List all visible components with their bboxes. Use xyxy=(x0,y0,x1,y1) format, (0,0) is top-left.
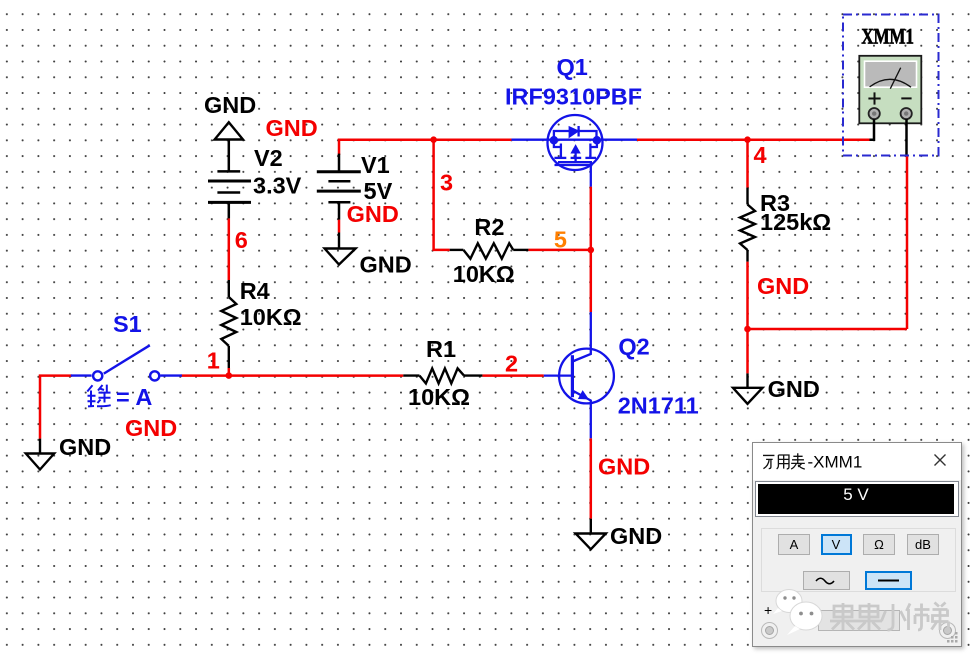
svg-text:GND: GND xyxy=(610,523,662,549)
svg-text:GND: GND xyxy=(757,273,809,299)
dialog 万用表-XMM1 multimeter window xyxy=(752,442,962,647)
button AC xyxy=(803,571,850,590)
char yong xyxy=(777,455,789,469)
wire segment R4 to node 1 xyxy=(228,368,231,376)
display black screen xyxy=(758,484,954,514)
wire net 4 down to R3 xyxy=(746,140,749,188)
button dB xyxy=(907,534,939,555)
display bezel xyxy=(755,481,959,517)
battery V1 xyxy=(317,154,361,220)
svg-text:R4: R4 xyxy=(240,278,270,304)
svg-text:GND: GND xyxy=(768,376,820,402)
svg-text:2N1711: 2N1711 xyxy=(618,392,699,418)
resistor R1 xyxy=(403,368,482,383)
wire segment junction to ground R3 xyxy=(746,329,749,373)
watermark char xiao xyxy=(882,604,906,630)
button DC active xyxy=(865,571,912,590)
svg-text:-XMM1: -XMM1 xyxy=(808,453,863,472)
svg-text:3: 3 xyxy=(440,170,453,196)
junction node 1 xyxy=(226,372,233,379)
wire segment XMM1 minus vertical xyxy=(906,156,909,330)
watermark char shi xyxy=(907,604,930,631)
selection box XMM1 xyxy=(843,15,939,156)
multimeter XMM1 instrument icon xyxy=(843,15,939,156)
svg-text:GND: GND xyxy=(204,92,256,118)
svg-text:10KΩ: 10KΩ xyxy=(453,261,515,287)
wire net top rail red left xyxy=(40,140,907,519)
wire net 6 V2 to R4 xyxy=(228,218,231,280)
watermark char guo 2 xyxy=(856,603,882,630)
ground symbol below S1 xyxy=(26,439,54,470)
svg-text:125kΩ: 125kΩ xyxy=(760,209,831,235)
junction node 4 on top rail xyxy=(744,136,751,143)
svg-text:3.3V: 3.3V xyxy=(253,172,302,198)
svg-text:R1: R1 xyxy=(426,336,456,362)
wire XMM1 minus lead xyxy=(905,119,908,155)
button V active xyxy=(821,534,852,555)
wire net 1 bottom rail left of R1 xyxy=(181,374,404,377)
wire XMM1 plus lead xyxy=(870,119,875,140)
wire net 5 segment R2 to junction xyxy=(528,249,590,252)
wire net 3 vertical drop xyxy=(434,140,450,250)
close button X xyxy=(935,455,946,466)
svg-text:5: 5 xyxy=(554,227,567,253)
wire segment S1 left xyxy=(40,376,72,439)
switch S1 xyxy=(71,345,182,380)
svg-text:R2: R2 xyxy=(474,214,504,240)
ground symbol above V2 (up arrow) xyxy=(215,122,243,139)
junction node 5 xyxy=(588,247,595,254)
junction node 3 on top rail xyxy=(430,136,437,143)
resistor R3 xyxy=(740,188,755,262)
ground symbol below R3 xyxy=(733,373,763,403)
svg-text:5V: 5V xyxy=(364,178,393,204)
svg-text:1: 1 xyxy=(207,347,220,373)
char wan xyxy=(763,455,774,468)
svg-text:IRF9310PBF: IRF9310PBF xyxy=(505,83,642,109)
svg-text:10KΩ: 10KΩ xyxy=(240,304,302,330)
button settings (covered by watermark) xyxy=(818,610,900,631)
resistor R4 xyxy=(221,280,236,368)
MOSFET Q1 IRF9310PBF xyxy=(512,115,638,187)
resistor R2 xyxy=(450,243,529,258)
svg-text:V2: V2 xyxy=(254,145,283,171)
watermark wechat icon and text xyxy=(753,588,961,657)
wire segment R3 bottom to junction xyxy=(746,262,749,329)
svg-text:V1: V1 xyxy=(361,152,390,178)
wire net 5 vertical Q1 drain to Q2 collector xyxy=(590,187,593,312)
wire segment XMM1 minus horizontal xyxy=(748,328,908,331)
group box xyxy=(761,528,956,592)
svg-text:S1: S1 xyxy=(113,311,142,337)
wire segment Q2 emitter to ground xyxy=(590,438,593,518)
resize grip xyxy=(946,631,960,645)
wire segment V1 negative to ground xyxy=(338,220,341,233)
terminal left xyxy=(761,622,778,639)
BJT Q2 2N1711 xyxy=(544,312,614,438)
wire net top rail red right xyxy=(637,138,870,141)
battery V2 xyxy=(208,140,251,219)
svg-text:GND: GND xyxy=(347,201,399,227)
dialog title text xyxy=(753,443,961,480)
svg-text:2: 2 xyxy=(505,350,518,376)
watermark char guo 1 xyxy=(830,603,856,630)
dialog title bar xyxy=(753,443,961,480)
button A xyxy=(778,534,810,555)
char biao xyxy=(791,453,805,469)
ground symbol below Q2 xyxy=(576,519,606,550)
label Chinese char jian (key) xyxy=(87,385,110,407)
svg-text:Q1: Q1 xyxy=(557,54,588,80)
svg-text:GND: GND xyxy=(266,115,318,141)
svg-text:GND: GND xyxy=(125,415,177,441)
svg-text:Q2: Q2 xyxy=(618,334,649,360)
ground symbol below V1 xyxy=(325,233,356,265)
terminal right xyxy=(939,622,956,639)
button ohm xyxy=(863,534,895,555)
svg-text:GND: GND xyxy=(59,434,111,460)
svg-text:GND: GND xyxy=(360,252,412,278)
svg-text:10KΩ: 10KΩ xyxy=(408,384,470,410)
watermark char di xyxy=(932,603,949,631)
svg-text:XMM1: XMM1 xyxy=(861,23,914,48)
plus sign xyxy=(764,602,772,618)
junction R3 ground net xyxy=(744,326,751,333)
svg-text:GND: GND xyxy=(598,454,650,480)
svg-text:= A: = A xyxy=(116,384,152,410)
wire net 2 segment R1 to Q2 base xyxy=(482,374,543,377)
svg-text:4: 4 xyxy=(754,142,767,168)
svg-text:6: 6 xyxy=(235,227,248,253)
